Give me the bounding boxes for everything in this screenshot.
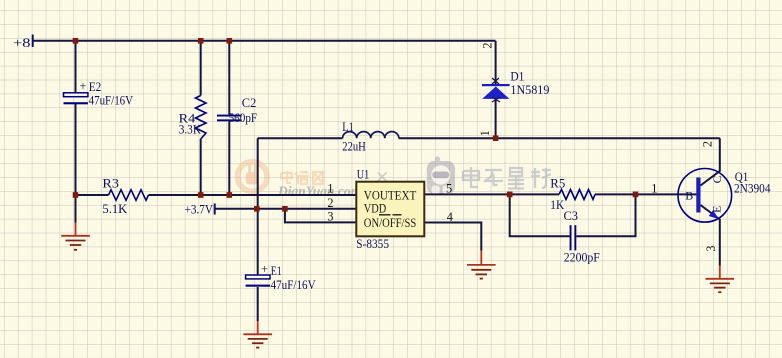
- wire D1 lower: [495, 99, 497, 138]
- svg-text:R5: R5: [550, 176, 565, 190]
- wire E2 branch upper: [75, 41, 77, 93]
- svg-text:2200pF: 2200pF: [564, 251, 600, 265]
- wire C3 left branch: [510, 194, 570, 236]
- inductor L1: [343, 132, 399, 139]
- wire Q1 emitter vertical: [701, 205, 720, 266]
- wire +8 top rail: [33, 40, 496, 42]
- svg-text:1K: 1K: [550, 198, 564, 212]
- wire D1 upper: [495, 41, 497, 84]
- svg-text:+: +: [80, 79, 87, 93]
- wire E1 ground stub: [257, 287, 259, 321]
- capacitor C2: [217, 115, 242, 122]
- wire E2 branch lower: [75, 104, 77, 195]
- junction R4 / top rail: [198, 38, 204, 44]
- svg-text:C2: C2: [242, 96, 256, 110]
- svg-text:22uH: 22uH: [342, 140, 366, 154]
- ground Q1 emitter: [706, 266, 735, 292]
- svg-text:VOUTEXT: VOUTEXT: [364, 189, 417, 203]
- ground U1 pin 4: [467, 251, 496, 279]
- junction C2 / pin1 line: [227, 192, 233, 198]
- diode D1: [482, 78, 510, 102]
- junction C3 right / base line: [633, 192, 639, 198]
- svg-text:ON/OFF/SS: ON/OFF/SS: [364, 216, 417, 230]
- wire U1 pin 5 to R5: [424, 193, 559, 195]
- svg-text:R3: R3: [102, 177, 119, 191]
- svg-text:1: 1: [651, 181, 657, 195]
- watermark DianYuan ring logo: [238, 162, 268, 192]
- svg-text:+: +: [261, 262, 268, 276]
- resistor R5: [559, 190, 595, 200]
- svg-text:560pF: 560pF: [229, 111, 258, 125]
- resistor R3: [109, 190, 149, 201]
- wire C3 right branch: [576, 194, 635, 236]
- svg-text:+3.7V: +3.7V: [185, 203, 213, 217]
- svg-text:E2: E2: [89, 80, 102, 94]
- wire U1 pin 3 elbow: [285, 209, 356, 223]
- junction D1 / L1 rail: [493, 135, 499, 141]
- capacitor C3: [570, 225, 577, 250]
- wire +3.7V to U1 pin 2: [215, 208, 357, 210]
- wire L1 right to Q1 collector elbow: [399, 137, 720, 139]
- svg-text:E: E: [709, 206, 723, 213]
- svg-text:1: 1: [327, 182, 333, 196]
- watermark text 电源网: [281, 171, 323, 184]
- watermark robot icon: [427, 156, 455, 194]
- svg-text:2: 2: [327, 196, 333, 210]
- svg-text:C3: C3: [564, 209, 579, 223]
- svg-text:U1: U1: [357, 168, 370, 182]
- wire L1 left lead: [258, 137, 343, 139]
- svg-text:C: C: [710, 175, 724, 183]
- svg-text:2: 2: [481, 42, 495, 48]
- svg-text:D1: D1: [510, 70, 524, 84]
- wire C2 lower: [228, 121, 230, 195]
- wire Q1 collector vertical: [701, 138, 720, 185]
- transistor Q1: [678, 169, 732, 223]
- wire U1 pin 4 to ground: [424, 223, 481, 251]
- wire C2 upper: [228, 41, 230, 115]
- capacitor E2 polarized: [64, 93, 88, 104]
- svg-text:47uF/16V: 47uF/16V: [89, 93, 134, 107]
- junction E2 / top rail: [73, 38, 79, 44]
- svg-text:5: 5: [446, 181, 452, 195]
- wire R4 lower: [200, 139, 202, 195]
- svg-text:S-8355: S-8355: [356, 237, 389, 251]
- svg-text:1N5819: 1N5819: [510, 83, 549, 97]
- svg-text:3: 3: [704, 245, 718, 251]
- wire R4 upper: [200, 41, 202, 96]
- wire R3 left lead: [76, 194, 109, 196]
- svg-text:3: 3: [327, 209, 333, 223]
- resistor R4: [195, 96, 206, 140]
- svg-text:+8: +8: [13, 35, 31, 50]
- svg-text:L1: L1: [342, 120, 354, 134]
- wire R3 ground stub: [75, 195, 77, 223]
- wire VDD vertical node: [257, 138, 259, 209]
- svg-text:DianYuan.com: DianYuan.com: [277, 184, 361, 199]
- capacitor E1 polarized: [246, 275, 270, 287]
- junction C2 / top rail: [227, 38, 233, 44]
- wire E1 branch: [257, 209, 259, 275]
- svg-text:47uF/16V: 47uF/16V: [271, 278, 316, 292]
- svg-text:VDD: VDD: [364, 202, 387, 216]
- svg-text:4: 4: [447, 210, 453, 224]
- wire R5 to Q1 base: [595, 193, 696, 195]
- ground E1: [243, 321, 272, 348]
- junction C3 left / pin5 line: [507, 192, 513, 198]
- junction R4 / pin1 line: [198, 192, 204, 198]
- svg-text:B: B: [685, 188, 693, 202]
- wire R3 to U1 pin 1: [149, 194, 357, 196]
- svg-text:5.1K: 5.1K: [102, 202, 127, 216]
- svg-text:E1: E1: [271, 264, 282, 278]
- junction pin3 elbow / pin2 line: [282, 206, 288, 212]
- op IC U1 S-8355: [356, 182, 424, 237]
- svg-text:2N3904: 2N3904: [734, 182, 771, 196]
- junction R3 / E2: [73, 192, 79, 198]
- svg-text:3.3K: 3.3K: [179, 123, 201, 137]
- watermark text 电子星球: [463, 167, 551, 189]
- ground R3: [61, 223, 90, 250]
- junction VDD / pin2 line: [254, 206, 260, 212]
- svg-text:2: 2: [701, 141, 715, 147]
- svg-text:1: 1: [478, 130, 492, 136]
